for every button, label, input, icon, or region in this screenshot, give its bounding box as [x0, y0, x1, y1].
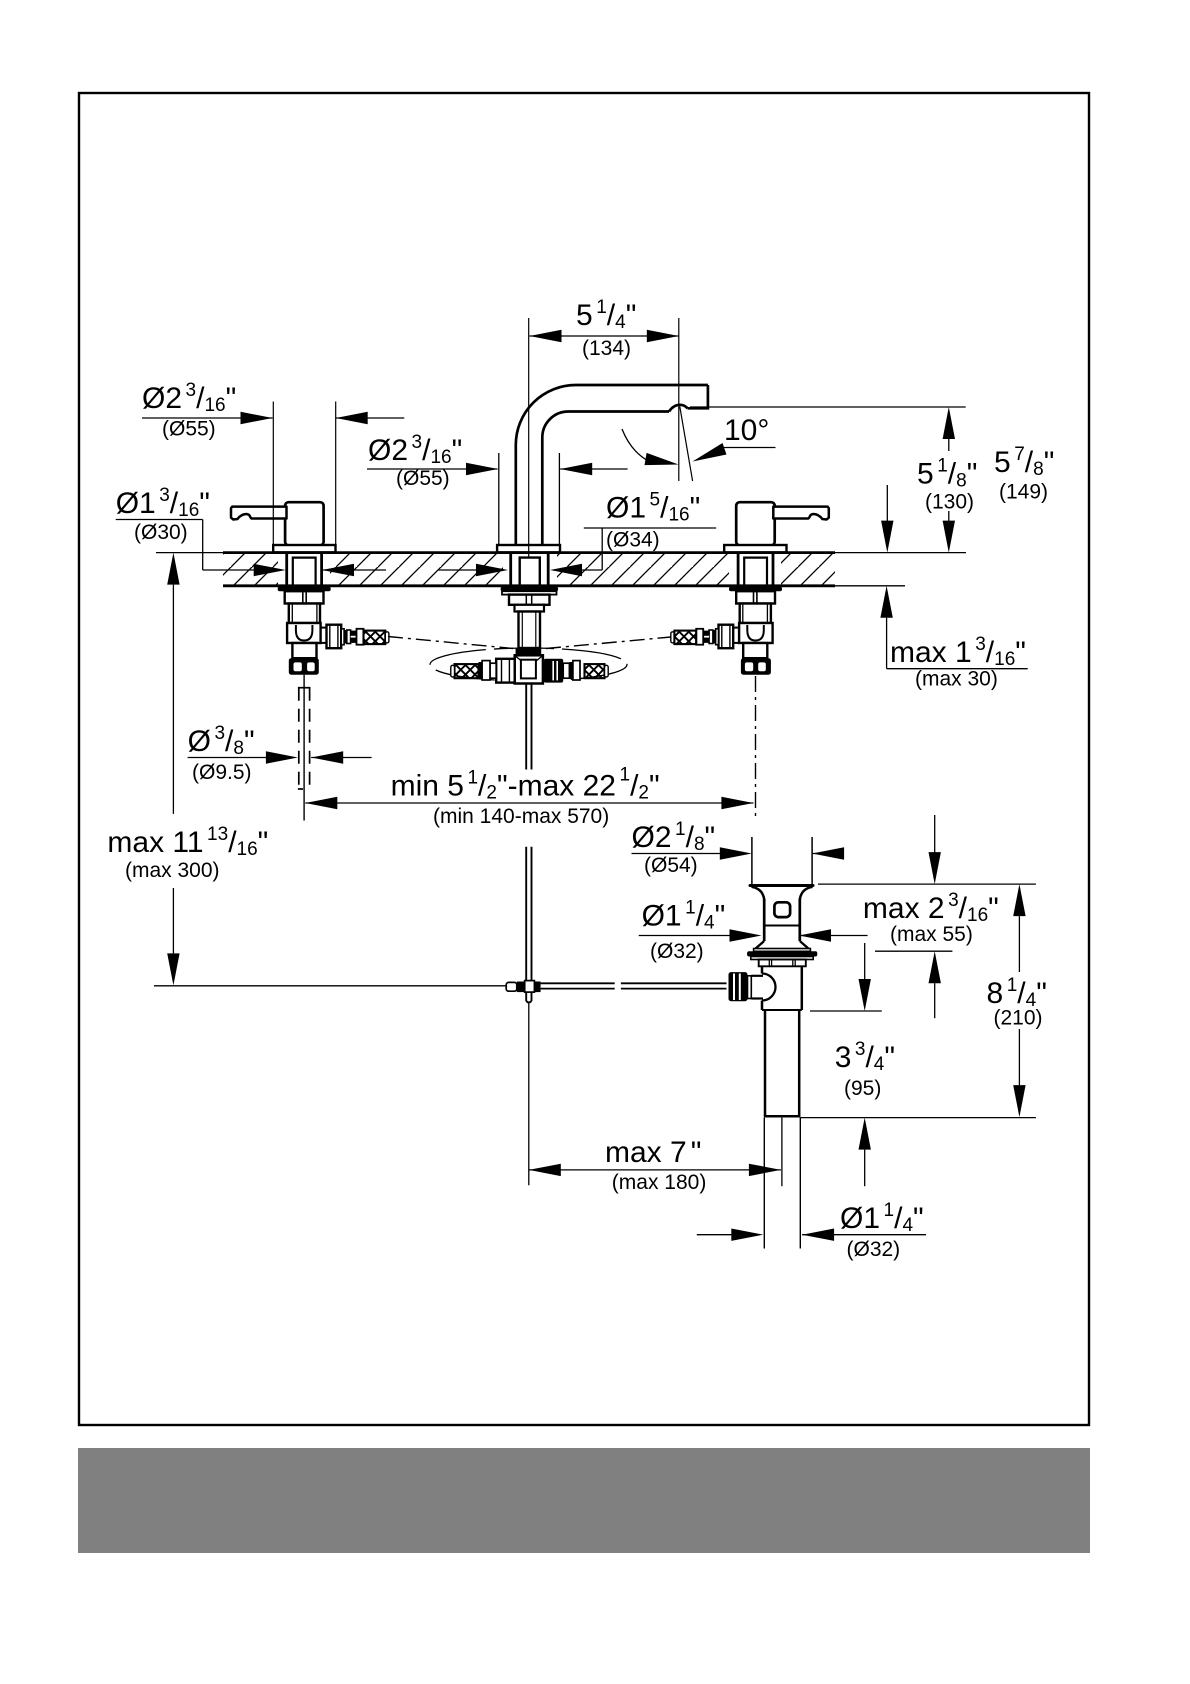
svg-text:57/8": 57/8" [994, 444, 1054, 480]
dimension Ø 3/8 (Ø9.5) [188, 723, 372, 784]
dimension Ø1 3/16 (Ø30) left shank [116, 485, 386, 576]
right valve side port to hose [696, 625, 739, 649]
center tee right black ring [569, 662, 573, 679]
right handle lever [773, 507, 829, 520]
gray footer bar [78, 1448, 1090, 1553]
drain trumpet flange [750, 886, 813, 902]
left swing dash-dot line [388, 637, 513, 649]
left valve supply nut [289, 658, 319, 675]
pop-up actuator vertical tube lower [526, 847, 531, 1003]
countertop deck top line [223, 551, 835, 554]
drain centerline extension [781, 1118, 783, 1187]
pop-up rod coupling [506, 981, 540, 993]
drain neck body [764, 899, 800, 941]
dimension 8 1/4 (210) [987, 884, 1047, 1117]
svg-text:33/4": 33/4" [835, 1039, 895, 1075]
left valve braided hose [364, 631, 389, 645]
dimension min-max spread [305, 765, 753, 829]
right handle escutcheon flange [724, 545, 786, 552]
drain cone flare [754, 941, 811, 951]
drain overflow square hole [774, 902, 790, 917]
svg-text:(Ø55): (Ø55) [396, 467, 450, 490]
spout deck shank [511, 553, 549, 586]
svg-text:(Ø32): (Ø32) [847, 1238, 901, 1261]
drain knurled locknut [759, 960, 806, 967]
svg-text:(Ø34): (Ø34) [606, 529, 660, 552]
svg-text:(Ø55): (Ø55) [162, 418, 216, 441]
right valve block [739, 623, 773, 643]
right valve supply nut [741, 658, 771, 675]
center tee left spacer [490, 663, 496, 678]
svg-text:max 1113/16": max 1113/16" [107, 824, 268, 860]
frame border [79, 93, 1089, 1425]
svg-text:(210): (210) [994, 1007, 1043, 1030]
deck top thin extension right [835, 552, 966, 554]
10 degree annotation [622, 407, 776, 482]
svg-text:(134): (134) [582, 337, 631, 360]
svg-text:(max 55): (max 55) [890, 923, 973, 946]
svg-text:(Ø54): (Ø54) [644, 854, 698, 877]
svg-text:max 23/16": max 23/16" [863, 890, 999, 926]
pop-up rod clamp knob [729, 972, 748, 1001]
max7 extension centerline below tube [528, 1004, 530, 1186]
dimension 5 1/4 (134) top [530, 297, 679, 481]
center right braided hose [585, 664, 609, 678]
svg-text:Ø15/16": Ø15/16" [606, 490, 700, 526]
right valve body cylinder [740, 604, 771, 624]
dimension 5 1/8 (130) [917, 407, 977, 553]
svg-text:Ø21/8": Ø21/8" [632, 819, 716, 855]
drain pipe continuation below [764, 1118, 800, 1249]
countertop deck hatching [223, 554, 835, 585]
dimension Ø2 3/16 (Ø55) spout base [367, 432, 628, 490]
dimension 5 7/8 (149) [881, 444, 1054, 553]
reference line spout outlet height [690, 406, 966, 408]
svg-text:Ø23/16": Ø23/16" [368, 432, 462, 468]
svg-text:(95): (95) [844, 1077, 881, 1100]
drain body with rod port [748, 966, 802, 1010]
spout outer tube (wide Ø55 base) [499, 453, 560, 545]
left handle escutcheon flange [273, 545, 335, 552]
pop-up horizontal rod segment B [621, 983, 727, 988]
left valve block [287, 623, 321, 643]
left valve locknut washer [278, 587, 331, 591]
svg-text:51/4": 51/4" [576, 297, 636, 333]
svg-text:max 13/16": max 13/16" [890, 634, 1026, 670]
center tee right spacer [563, 663, 569, 678]
left valve locknut [285, 591, 324, 603]
right valve centerline dash-dot [755, 676, 757, 820]
center tee body [515, 655, 543, 683]
left handle lever [231, 507, 287, 520]
spout centerline [528, 318, 530, 557]
svg-text:Ø11/4": Ø11/4" [642, 897, 726, 933]
svg-text:Ø3/8": Ø3/8" [188, 723, 255, 759]
drain washer plate [751, 957, 813, 960]
deck bottom thin extension right [835, 585, 905, 587]
dimension max 1 3/16 (max 30) [880, 586, 1027, 691]
center tee left nut [496, 659, 515, 683]
center tee left ferrule [482, 661, 490, 680]
svg-text:Ø23/16": Ø23/16" [142, 380, 236, 416]
right valve lower body [743, 643, 767, 658]
svg-text:(max 180): (max 180) [612, 1171, 707, 1194]
svg-text:(max 30): (max 30) [915, 668, 998, 691]
left valve deck shank [287, 553, 322, 586]
left valve side port to hose [321, 625, 364, 649]
dimension 3 3/4 (95) [810, 943, 895, 1186]
svg-text:51/8": 51/8" [917, 456, 977, 492]
left handle body [285, 502, 324, 545]
left valve supply stub centerline [303, 675, 305, 821]
svg-text:Ø11/4": Ø11/4" [840, 1200, 924, 1236]
spout escutcheon flange [497, 545, 560, 552]
right valve locknut [736, 591, 775, 603]
right valve locknut washer [729, 587, 782, 591]
dimension max 11 13/16 (max 300) [107, 553, 268, 986]
left valve body cylinder [289, 604, 320, 624]
drain tailpipe [764, 1010, 801, 1116]
svg-text:(149): (149) [999, 481, 1048, 504]
center tee right ferrule [573, 661, 580, 680]
svg-text:(Ø32): (Ø32) [650, 940, 704, 963]
drain top pipe [752, 837, 812, 884]
svg-text:(Ø9.5): (Ø9.5) [192, 761, 252, 784]
left valve lower body [292, 643, 316, 658]
dimension Ø1 1/4 (Ø32) drain body [639, 897, 868, 963]
swivel range ellipse [430, 648, 627, 681]
center tee coupling black band [516, 648, 542, 655]
drain step at tailpipe [762, 1009, 802, 1011]
svg-text:Ø13/16": Ø13/16" [116, 485, 210, 521]
center left braided hose [451, 664, 479, 678]
dimension Ø1 1/4 (Ø32) bottom pipe [697, 1200, 926, 1261]
svg-text:min 51/2"-max 221/2": min 51/2"-max 221/2" [391, 765, 660, 804]
dimension Ø2 1/8 (Ø54) [632, 819, 845, 877]
drain rubber washer (black bar) [747, 951, 817, 956]
dimension Ø1 5/16 (Ø34) spout shank [438, 490, 717, 577]
spout riser and horizontal arm [516, 385, 708, 545]
pop-up horizontal rod segment A [541, 983, 615, 988]
right swing dash-dot line [546, 637, 671, 649]
svg-text:(max 300): (max 300) [125, 859, 220, 882]
reference line tailpipe end [800, 1117, 1036, 1119]
left supply dashed pipe [298, 688, 311, 789]
right handle body [736, 502, 775, 545]
svg-text:(min 140-max 570): (min 140-max 570) [433, 805, 609, 828]
svg-text:(Ø30): (Ø30) [134, 521, 188, 544]
svg-text:max 7": max 7" [605, 1136, 701, 1169]
svg-text:(130): (130) [925, 491, 974, 514]
center tee right nut (dark) [544, 659, 563, 683]
dimension max 2 3/16 (max 55) [863, 815, 999, 1018]
right valve deck shank [738, 553, 773, 586]
reference line drain flange top [818, 883, 1036, 885]
svg-text:10°: 10° [724, 414, 769, 447]
center tee left black ring [479, 662, 483, 679]
countertop deck bottom line [223, 584, 835, 587]
right valve braided hose [671, 631, 696, 645]
pop-up actuator vertical tube upper [526, 684, 531, 770]
dimension Ø2 3/16 (Ø55) left handle [142, 380, 404, 545]
horizontal reference line at rod level [154, 985, 506, 987]
deck top thin extension left [156, 552, 223, 554]
center supply drop tube upper [501, 587, 558, 648]
dimension max 7 (max 180) [529, 1136, 781, 1194]
